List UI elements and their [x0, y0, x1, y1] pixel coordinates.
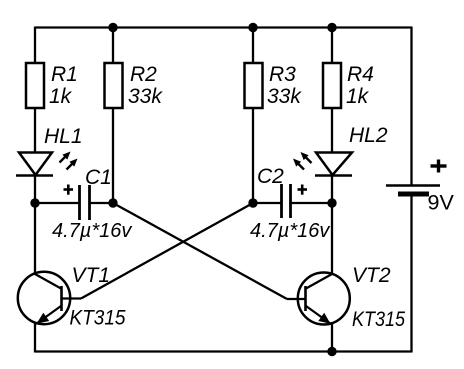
wire R3 to C2 node [252, 107, 254, 203]
svg-text:4.7µ*16v: 4.7µ*16v [52, 220, 132, 242]
svg-text:33k: 33k [128, 85, 163, 108]
VT1 base bar [60, 286, 63, 311]
HL1 emission arrows [60, 152, 78, 170]
R2 body [105, 63, 123, 108]
VT1 emitter lead [36, 306, 61, 324]
wire left rail top (to R1) [34, 27, 36, 65]
resistor R1 [26, 63, 78, 108]
HL1 anode triangle [19, 153, 52, 176]
node VT2 emitter / bottom rail [327, 347, 336, 356]
svg-text:C1: C1 [85, 166, 112, 189]
svg-text:HL1: HL1 [44, 125, 83, 148]
svg-text:VT2: VT2 [352, 264, 391, 287]
battery negative plate [398, 192, 429, 197]
svg-text:KT315: KT315 [352, 308, 405, 331]
HL1 cathode bar [16, 174, 53, 177]
node top R2 [108, 23, 117, 32]
battery positive plate [386, 184, 440, 187]
svg-text:1k: 1k [49, 85, 73, 108]
wire C1 right lead [90, 202, 113, 204]
svg-text:R4: R4 [347, 63, 374, 86]
C1 left plate (+) [78, 185, 81, 220]
node top R4 [327, 23, 336, 32]
wire top rail [35, 26, 412, 28]
resistor R4 [323, 63, 374, 108]
svg-text:R1: R1 [51, 63, 78, 86]
transistor VT1 [18, 264, 126, 330]
svg-text:4.7µ*16v: 4.7µ*16v [250, 220, 330, 242]
svg-text:9V: 9V [428, 191, 455, 215]
wire C1 left lead [35, 202, 79, 204]
svg-text:HL2: HL2 [349, 124, 388, 147]
HL2 anode triangle [316, 153, 352, 176]
wire battery rail upper [410, 27, 412, 186]
wire R3 column top [252, 27, 254, 65]
LED HL2 [293, 124, 388, 176]
C2 right plate (+) [289, 184, 292, 218]
VT1 emitter arrow [37, 313, 50, 324]
VT1 base lead [61, 297, 81, 299]
wire cross-couple C2 node to VT1 base [81, 203, 253, 299]
wire R2 column top [112, 27, 114, 65]
svg-text:KT315: KT315 [70, 307, 126, 330]
svg-text:VT1: VT1 [72, 264, 111, 287]
wire bottom rail [35, 350, 412, 352]
svg-text:1k: 1k [346, 85, 370, 108]
resistor R3 [245, 63, 303, 108]
transistor VT2 [287, 264, 405, 331]
HL2 emission arrows [293, 152, 312, 170]
wire R1 to HL1 [34, 107, 36, 153]
wire battery rail lower [410, 195, 412, 353]
battery plus sign [431, 160, 447, 173]
R3 body [245, 63, 263, 108]
capacitor C2 [250, 165, 330, 242]
wire R2 to C1 node [112, 107, 114, 203]
VT2 body circle [298, 273, 350, 325]
R4 body [323, 63, 341, 108]
node C1 / R2 [108, 198, 117, 207]
C2 left plate [280, 184, 283, 218]
node C2 / R3 [248, 198, 257, 207]
wire R4 column top [331, 27, 333, 65]
svg-text:C2: C2 [257, 165, 284, 188]
wire HL1 to VT1 collector [34, 175, 36, 275]
wire VT2 emitter to bottom rail [331, 322, 333, 353]
VT2 base lead [287, 298, 306, 300]
battery GB1 9V [386, 160, 454, 215]
C2 polarity plus [298, 185, 308, 195]
VT2 emitter lead [306, 306, 331, 324]
wire R4 to HL2 [331, 107, 333, 153]
R1 body [26, 63, 44, 108]
VT1 collector lead [35, 274, 61, 289]
VT1 body circle [18, 272, 70, 324]
svg-text:33k: 33k [267, 85, 302, 108]
svg-text:R2: R2 [130, 63, 157, 86]
svg-text:R3: R3 [269, 63, 296, 86]
C1 polarity plus [64, 185, 74, 195]
HL2 cathode bar [315, 174, 352, 177]
node C2 / HL2 [327, 198, 336, 207]
LED HL1 [16, 125, 83, 176]
wire C2 left lead [253, 202, 281, 204]
C1 right plate [88, 185, 91, 220]
node HL1 cathode / C1 [30, 198, 39, 207]
wire HL2 to VT2 collector [331, 175, 333, 275]
wire cross-couple C1 node to VT2 base [113, 203, 287, 299]
wire C2 right lead [291, 202, 332, 204]
VT2 emitter arrow [318, 313, 330, 324]
resistor R2 [105, 63, 164, 108]
capacitor C1 [52, 166, 132, 242]
VT2 collector lead [306, 274, 332, 289]
VT2 base bar [304, 286, 307, 311]
node top R3 [248, 23, 257, 32]
wire VT1 emitter to bottom rail [34, 322, 36, 353]
